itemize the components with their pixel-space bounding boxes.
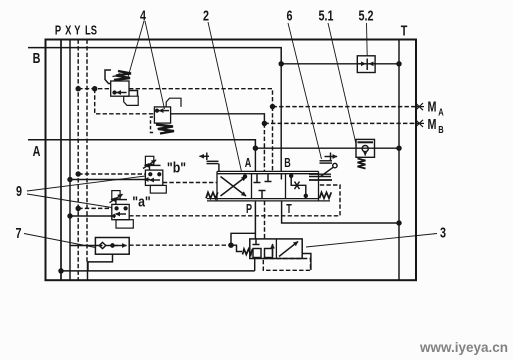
- label 3: [440, 224, 446, 241]
- enclosure 4a: [105, 70, 111, 84]
- svg-text:P: P: [55, 24, 62, 38]
- svg-text:3: 3: [440, 224, 446, 241]
- wire valve tank dashed down to comp 3: [264, 201, 266, 239]
- wire 7 output dashed: [129, 244, 231, 246]
- leader 2: [208, 22, 242, 172]
- label b: [167, 160, 186, 176]
- leader 5.2: [366, 23, 369, 56]
- wire Y drain to 9b dashed: [78, 173, 145, 175]
- wire B to T through 5.2: [281, 63, 399, 65]
- valve right box throttle path: [290, 174, 308, 199]
- svg-text:X: X: [65, 24, 72, 38]
- wire Y vertical dashed: [77, 40, 79, 281]
- node T junction mid: [397, 146, 401, 150]
- wire LS bottom segment: [87, 262, 89, 280]
- spring main valve right: [320, 192, 332, 198]
- wire 7 drain elbow: [88, 254, 113, 271]
- component 4a relief valve: [111, 81, 129, 96]
- measuring port MB star: [415, 120, 425, 127]
- leader 6: [288, 23, 322, 159]
- svg-text:A: A: [245, 157, 252, 171]
- svg-text:"a": "a": [132, 194, 151, 210]
- component 9a pilot reducing valve: [110, 191, 134, 228]
- label 4: [140, 7, 147, 24]
- spring 4b blob: [156, 125, 174, 134]
- svg-text:M: M: [428, 98, 437, 115]
- hook 4a right: [129, 91, 138, 97]
- label A: [33, 142, 41, 159]
- leader 9 to a: [27, 194, 112, 208]
- valve centre box closed ports: [254, 174, 282, 199]
- wire MB down to valve dashed: [263, 123, 265, 171]
- wire Y to 4a dashed: [78, 88, 111, 90]
- wire B to valve vertical: [280, 64, 282, 172]
- svg-text:B: B: [438, 124, 444, 135]
- leader 9 to b: [27, 176, 145, 191]
- label 6: [286, 7, 292, 24]
- label 2: [203, 7, 209, 24]
- svg-text:7: 7: [15, 224, 21, 241]
- label 5.2: [359, 7, 374, 24]
- node P bottom junction: [59, 269, 63, 273]
- node X tap 9a: [68, 214, 72, 218]
- port label X: [65, 24, 72, 38]
- label MB: [428, 115, 445, 135]
- wire T port down and right: [282, 201, 399, 223]
- measuring line MB dashed: [264, 122, 415, 124]
- node T junction top: [397, 62, 401, 66]
- wire T vertical: [398, 40, 400, 281]
- wire A to T through 5.1: [255, 147, 399, 149]
- wire 9a output dashed to right pilot chamber: [129, 185, 340, 216]
- node B junction: [279, 62, 283, 66]
- valve label A: [245, 157, 252, 171]
- wire A to valve vertical: [254, 148, 256, 171]
- main valve 1 body: [207, 171, 330, 201]
- label MA: [428, 98, 445, 118]
- svg-text:Y: Y: [74, 24, 81, 38]
- component 7 flow sensor: [70, 238, 129, 255]
- label a: [132, 194, 151, 210]
- wire Y drain to 9a dashed: [78, 207, 112, 209]
- wire 4b output to MB: [171, 114, 265, 124]
- comp3 right box arrow: [279, 242, 298, 257]
- port label LS: [85, 24, 97, 38]
- label 7: [15, 224, 21, 241]
- wire branch down to 4b dashed: [95, 89, 155, 114]
- wire comp3 bottom to supply line: [254, 259, 256, 271]
- node Y tap 9b: [76, 172, 80, 176]
- svg-text:4: 4: [140, 7, 147, 24]
- component 5.1 check valve: [356, 139, 375, 157]
- node Y tap 4a: [76, 87, 80, 91]
- leader 5.1: [328, 23, 357, 146]
- label 9: [16, 182, 22, 199]
- measuring port MA star: [415, 103, 425, 110]
- wire MA down to valve A side dashed: [272, 107, 274, 172]
- wire P port down: [254, 201, 256, 239]
- node X tap 9b: [68, 178, 72, 182]
- leader 3: [306, 234, 437, 248]
- spring main valve left: [206, 192, 218, 198]
- wire comp3 drain elbow right: [302, 254, 311, 271]
- comp3 left box symbols: [253, 239, 273, 258]
- wire B port line: [28, 48, 281, 64]
- svg-text:5.1: 5.1: [319, 7, 334, 24]
- wire LS vertical dashed: [86, 40, 88, 263]
- leader 4 to 4b: [145, 21, 165, 109]
- valve label B: [284, 157, 291, 171]
- node 4 branch: [93, 87, 97, 91]
- lever actuator 6: [309, 153, 337, 181]
- box 4a offset: [124, 96, 139, 105]
- svg-text:M: M: [428, 115, 437, 132]
- label B: [33, 49, 41, 66]
- wire X vertical: [69, 40, 71, 281]
- port label P: [55, 24, 62, 38]
- box 4b offset: [166, 98, 181, 107]
- spring comp3: [243, 249, 253, 255]
- spring 5.1: [358, 159, 366, 169]
- port label Y: [74, 24, 81, 38]
- svg-text:6: 6: [286, 7, 292, 24]
- wire A port line: [28, 140, 255, 149]
- svg-text:B: B: [33, 49, 41, 66]
- valve label P: [246, 203, 252, 217]
- wire 9b output dashed to valve left: [163, 182, 217, 184]
- wire bottom supply line: [61, 270, 255, 272]
- svg-text:2: 2: [203, 7, 209, 24]
- pilot cap 2 left: [200, 153, 219, 172]
- valve label T: [286, 203, 292, 217]
- component 3 unloading valve: [250, 239, 302, 259]
- component 5.2 plug: [357, 56, 375, 73]
- svg-text:LS: LS: [85, 24, 97, 38]
- wire P vertical: [60, 40, 62, 281]
- svg-text:www.iyeya.cn: www.iyeya.cn: [419, 340, 508, 355]
- svg-text:T: T: [286, 203, 292, 217]
- spring 4a blob: [114, 71, 131, 80]
- node T junction bottom: [397, 221, 401, 225]
- comp3 dashed box below: [263, 259, 310, 271]
- valve left box crossed arrows: [221, 175, 247, 196]
- leader 4 to 4a: [128, 21, 144, 77]
- svg-text:5.2: 5.2: [359, 7, 374, 24]
- measuring line MA dashed: [273, 106, 416, 108]
- svg-text:A: A: [33, 142, 41, 159]
- enclosure 4b dashed: [151, 117, 156, 133]
- node Y tap 9a: [76, 206, 80, 210]
- svg-text:A: A: [438, 106, 444, 117]
- node MA tee: [271, 105, 275, 109]
- frame outer border: [46, 40, 417, 281]
- node MB tee: [262, 121, 266, 125]
- component 9b pilot reducing valve: [143, 156, 166, 193]
- svg-text:"b": "b": [167, 160, 186, 176]
- svg-text:P: P: [246, 203, 252, 217]
- wire pilot elbow to P: [231, 233, 255, 245]
- port label T: [401, 22, 408, 39]
- node pilot junction: [229, 243, 233, 247]
- wire pilot to comp3 spring: [231, 245, 242, 251]
- label 5.1: [319, 7, 334, 24]
- component 4b relief valve: [154, 107, 170, 123]
- watermark: [419, 340, 508, 355]
- svg-text:B: B: [284, 157, 291, 171]
- leader 7: [24, 234, 95, 248]
- wire 4a output dashed to MA: [129, 89, 273, 107]
- wire X supply to 9b: [70, 179, 147, 181]
- wire X supply to 9a: [70, 215, 113, 217]
- node A junction: [253, 146, 257, 150]
- svg-text:T: T: [401, 22, 408, 39]
- svg-text:9: 9: [16, 182, 22, 199]
